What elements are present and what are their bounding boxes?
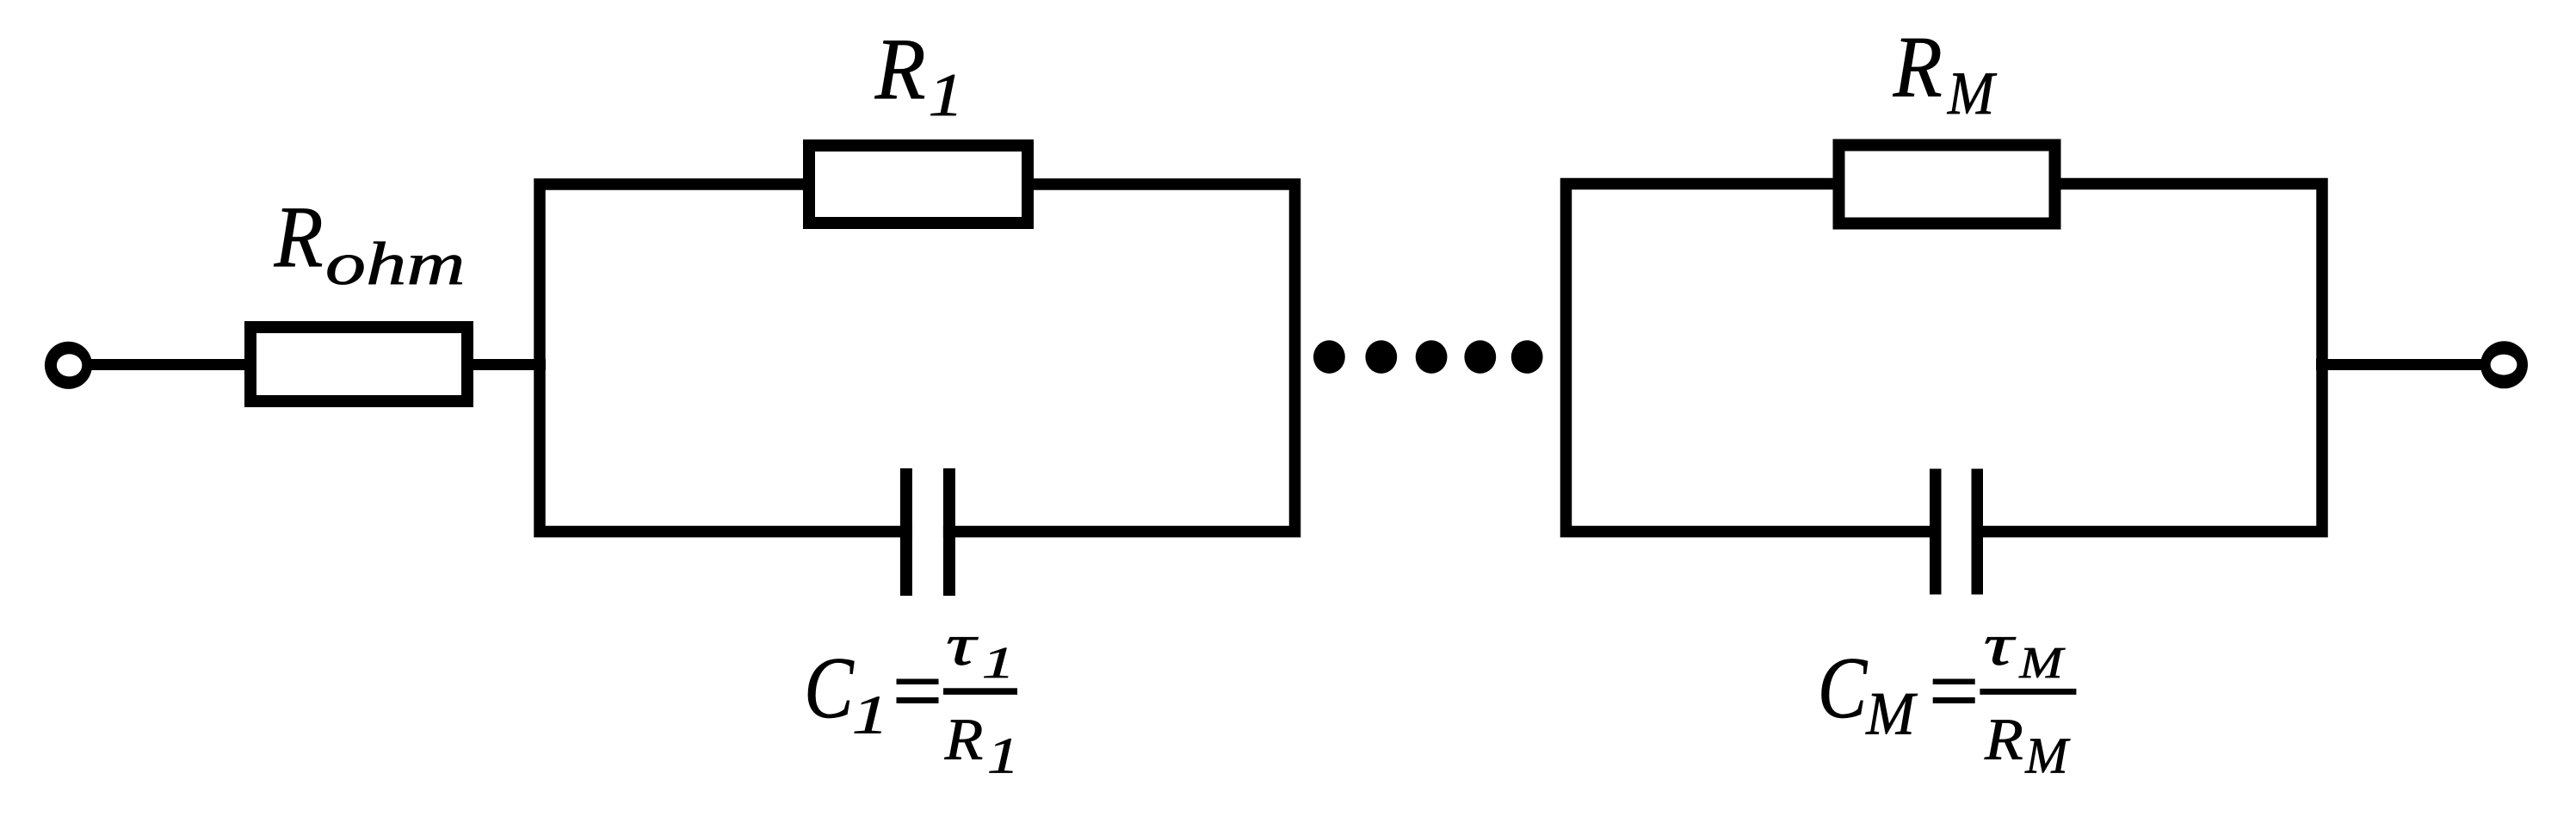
wire loop: RC block M bbox=[1566, 184, 2323, 532]
label RM bbox=[1893, 19, 1998, 127]
svg-text:τ: τ bbox=[1984, 612, 2017, 678]
svg-text:1: 1 bbox=[852, 684, 889, 745]
svg-text:R: R bbox=[944, 707, 984, 772]
svg-text:M: M bbox=[2018, 639, 2066, 688]
svg-text:τ: τ bbox=[946, 612, 979, 678]
wire: left terminal lead bbox=[69, 359, 257, 370]
svg-text:M: M bbox=[2024, 727, 2070, 784]
terminal: left input bbox=[45, 342, 92, 389]
svg-text:M: M bbox=[1865, 681, 1918, 748]
label C1 = tau1/R1 bbox=[804, 612, 1019, 784]
svg-text:R: R bbox=[274, 189, 324, 286]
svg-text:1: 1 bbox=[982, 639, 1016, 688]
svg-text:ohm: ohm bbox=[325, 231, 466, 298]
label CM = tauM/RM bbox=[1818, 612, 2077, 784]
svg-text:1: 1 bbox=[987, 727, 1020, 784]
svg-text:R: R bbox=[1984, 707, 2023, 772]
wire: RC block M to right terminal bbox=[2316, 359, 2505, 370]
label R1 bbox=[874, 22, 964, 130]
svg-text:R: R bbox=[874, 22, 926, 119]
resistor RM bbox=[1839, 145, 2055, 224]
resistor Rohm bbox=[250, 327, 467, 401]
dots: series continuation bbox=[1313, 340, 1543, 374]
wire loop: RC block 1 bbox=[540, 184, 1295, 532]
svg-text:C: C bbox=[804, 640, 854, 737]
capacitor CM bbox=[1930, 469, 1983, 595]
svg-text:1: 1 bbox=[929, 62, 964, 129]
label Rohm bbox=[274, 189, 466, 297]
resistor R1 bbox=[809, 145, 1028, 223]
svg-text:C: C bbox=[1818, 640, 1868, 737]
svg-text:R: R bbox=[1893, 19, 1943, 116]
terminal: right output bbox=[2480, 341, 2528, 388]
capacitor C1 bbox=[900, 468, 955, 596]
wire: Rohm to RC block 1 bbox=[467, 359, 546, 370]
svg-text:M: M bbox=[1947, 60, 1998, 127]
